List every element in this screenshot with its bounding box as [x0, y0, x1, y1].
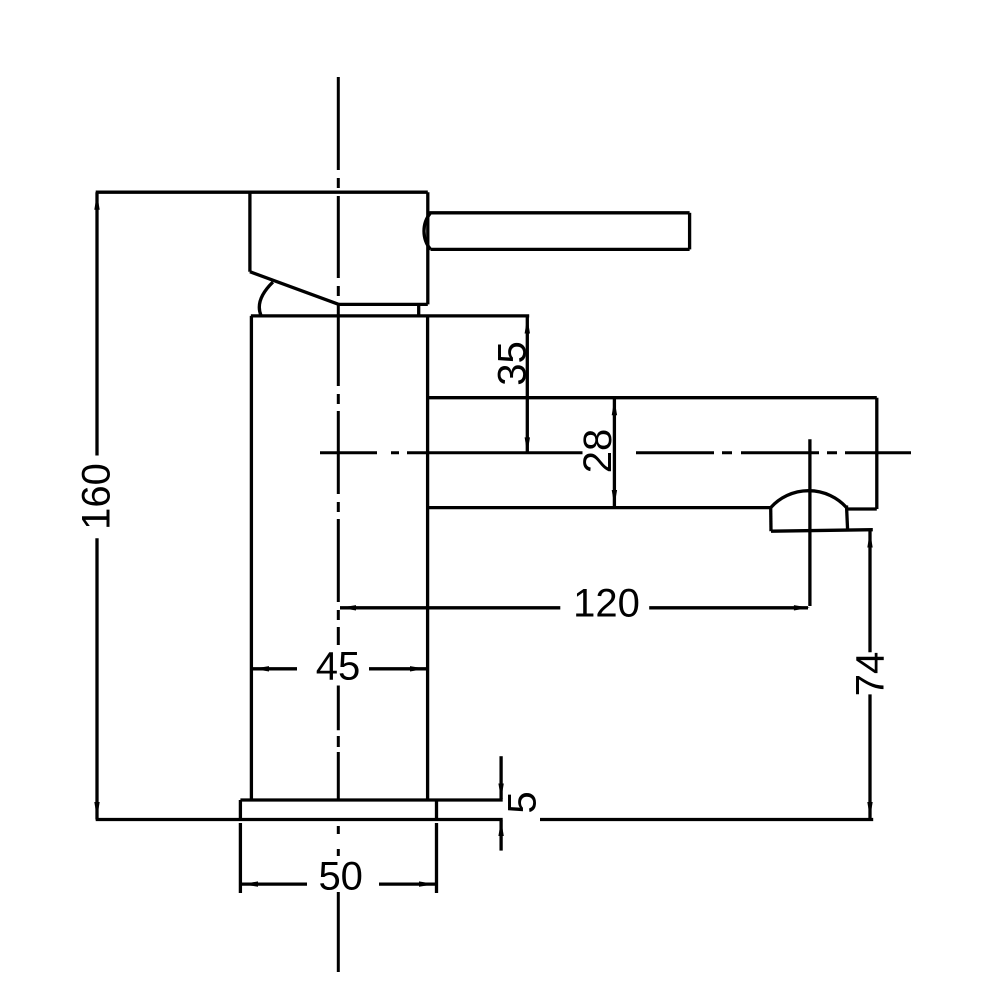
extension line below plate right for 50 dim: [435, 823, 438, 893]
body cap left edge: [248, 192, 251, 272]
handle right edge: [688, 213, 691, 250]
base plate right edge: [435, 800, 438, 820]
body cap diagonal: [250, 272, 339, 305]
body cap bottom edge: [339, 303, 428, 306]
arrow 35 bottom (down): [525, 437, 530, 453]
column shoulder top edge (with extension to 35 dim): [251, 314, 529, 317]
svg-text:74: 74: [849, 652, 893, 697]
svg-text:45: 45: [316, 645, 361, 689]
spout bottom left segment: [428, 506, 771, 509]
svg-text:28: 28: [576, 429, 620, 474]
dimension 5 lower line: [499, 821, 502, 851]
spout bottom right segment: [848, 507, 877, 510]
body cap right edge: [426, 192, 429, 304]
arrow 160 bottom (down): [94, 802, 99, 818]
dimension 160 line: [95, 192, 98, 819]
aerator left edge: [769, 508, 773, 532]
column left edge: [250, 316, 253, 800]
arrow 120 right: [794, 605, 810, 610]
main vertical centerline: [337, 77, 340, 972]
svg-text:160: 160: [75, 463, 119, 530]
arrow 35 top (up): [525, 318, 530, 334]
handle left cap arc: [424, 213, 431, 250]
body cap top edge (with extension to 160 dim): [96, 191, 428, 194]
arrow 50 right: [419, 881, 435, 886]
arrow 74 bottom (down): [867, 802, 872, 818]
aerator bottom edge with 74 extension: [771, 530, 873, 532]
dimension 28 line: [613, 398, 616, 508]
dimension 45 line: [251, 667, 427, 670]
svg-text:35: 35: [491, 341, 535, 386]
arrow 120 left: [340, 605, 356, 610]
spout top edge: [428, 396, 877, 399]
aerator dome arc: [771, 491, 847, 508]
arrow 5 upper (down, outside above plate): [498, 784, 503, 800]
dimension 120 line: [340, 606, 808, 609]
dimension 5 upper line: [499, 756, 502, 799]
base plate left edge: [239, 800, 242, 820]
extension line 74 bottom: [540, 818, 873, 821]
svg-text:5: 5: [501, 791, 545, 813]
aerator vertical centerline: [808, 439, 811, 606]
arrow 28 bottom (down): [612, 490, 617, 506]
dimension 35 line: [526, 316, 529, 453]
dimension 74 line: [868, 531, 871, 820]
extension line below plate left for 50 dim: [239, 823, 242, 893]
svg-text:120: 120: [573, 582, 640, 626]
base plate top edge (with extension to 5 dim): [240, 798, 502, 801]
spout right edge: [875, 398, 878, 509]
arrow 50 left: [242, 881, 258, 886]
arrow 45 left: [253, 666, 269, 671]
base plate bottom edge (with extensions to 160 dim and 5 dim): [96, 818, 503, 821]
horizontal spout centerline: [320, 451, 911, 454]
arrow 28 top (up): [612, 399, 617, 415]
neck step edge: [417, 304, 420, 316]
handle bottom edge: [431, 248, 690, 251]
arrow 160 top (up): [94, 194, 99, 210]
handle base arc: [259, 282, 273, 315]
dimension 50 line: [240, 882, 436, 885]
handle top edge: [430, 211, 690, 214]
svg-text:50: 50: [318, 855, 363, 899]
aerator right edge: [847, 506, 848, 531]
arrow 74 top (up): [867, 532, 872, 548]
arrow 45 right: [410, 666, 426, 671]
arrow 5 lower (up, outside below plate): [498, 820, 503, 836]
column right edge: [426, 316, 429, 800]
